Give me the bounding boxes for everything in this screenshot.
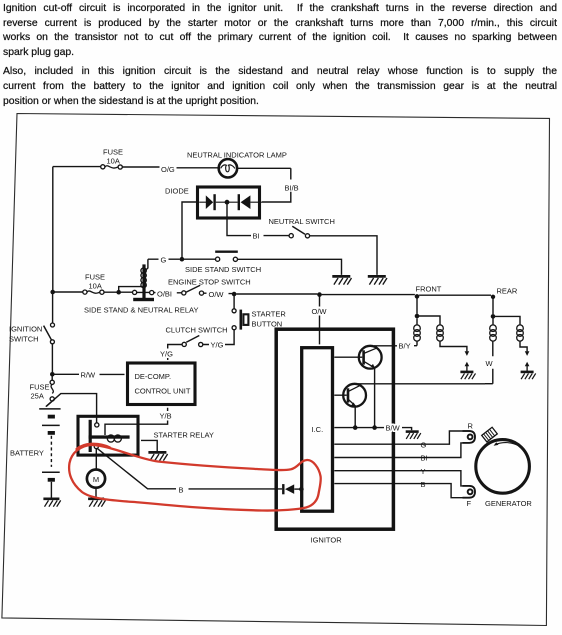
svg-text:W: W — [486, 359, 494, 368]
svg-text:Y: Y — [421, 467, 426, 476]
svg-text:BI/B: BI/B — [285, 184, 299, 193]
svg-text:IGNITION: IGNITION — [9, 325, 42, 334]
svg-text:BI: BI — [421, 454, 428, 463]
svg-text:B/W: B/W — [386, 424, 401, 433]
svg-text:M: M — [93, 475, 99, 484]
svg-text:25A: 25A — [31, 391, 44, 400]
svg-text:B/Y: B/Y — [399, 342, 411, 351]
svg-text:O/W: O/W — [209, 290, 225, 299]
svg-text:O/W: O/W — [312, 307, 328, 316]
svg-text:10A: 10A — [107, 157, 120, 166]
svg-text:NEUTRAL INDICATOR LAMP: NEUTRAL INDICATOR LAMP — [187, 151, 287, 160]
svg-text:Y/G: Y/G — [211, 341, 224, 350]
svg-text:FRONT: FRONT — [416, 284, 442, 293]
svg-text:BATTERY: BATTERY — [10, 448, 44, 457]
svg-text:STARTER RELAY: STARTER RELAY — [154, 431, 214, 440]
svg-text:CLUTCH SWITCH: CLUTCH SWITCH — [166, 325, 228, 334]
svg-text:F: F — [467, 499, 472, 508]
svg-text:DIODE: DIODE — [165, 187, 189, 196]
svg-text:SIDE STAND & NEUTRAL RELAY: SIDE STAND & NEUTRAL RELAY — [84, 305, 198, 314]
svg-text:R: R — [468, 421, 474, 430]
svg-text:SIDE STAND SWITCH: SIDE STAND SWITCH — [185, 265, 261, 274]
svg-text:REAR: REAR — [497, 286, 518, 295]
svg-text:STARTER: STARTER — [252, 310, 287, 319]
svg-text:CONTROL UNIT: CONTROL UNIT — [135, 387, 191, 396]
svg-text:DE-COMP.: DE-COMP. — [135, 372, 172, 381]
svg-text:B: B — [179, 485, 184, 494]
svg-text:Y/G: Y/G — [160, 349, 173, 358]
svg-text:GENERATOR: GENERATOR — [485, 499, 532, 508]
svg-text:FUSE: FUSE — [103, 148, 123, 157]
svg-text:ENGINE STOP SWITCH: ENGINE STOP SWITCH — [168, 277, 251, 286]
svg-text:10A: 10A — [89, 281, 102, 290]
svg-text:G: G — [421, 440, 427, 449]
svg-text:IGNITOR: IGNITOR — [311, 535, 343, 544]
svg-text:FUSE: FUSE — [85, 272, 105, 281]
svg-text:G: G — [161, 255, 167, 264]
svg-text:Y/B: Y/B — [160, 412, 172, 421]
svg-text:BUTTON: BUTTON — [252, 319, 283, 328]
svg-text:I.C.: I.C. — [312, 425, 324, 434]
svg-text:B: B — [421, 480, 426, 489]
svg-text:SWITCH: SWITCH — [9, 335, 39, 344]
svg-text:R/W: R/W — [81, 371, 97, 380]
svg-text:O/G: O/G — [161, 165, 175, 174]
svg-text:BI: BI — [253, 232, 260, 241]
svg-text:O/BI: O/BI — [157, 289, 172, 298]
svg-text:NEUTRAL SWITCH: NEUTRAL SWITCH — [269, 217, 335, 226]
